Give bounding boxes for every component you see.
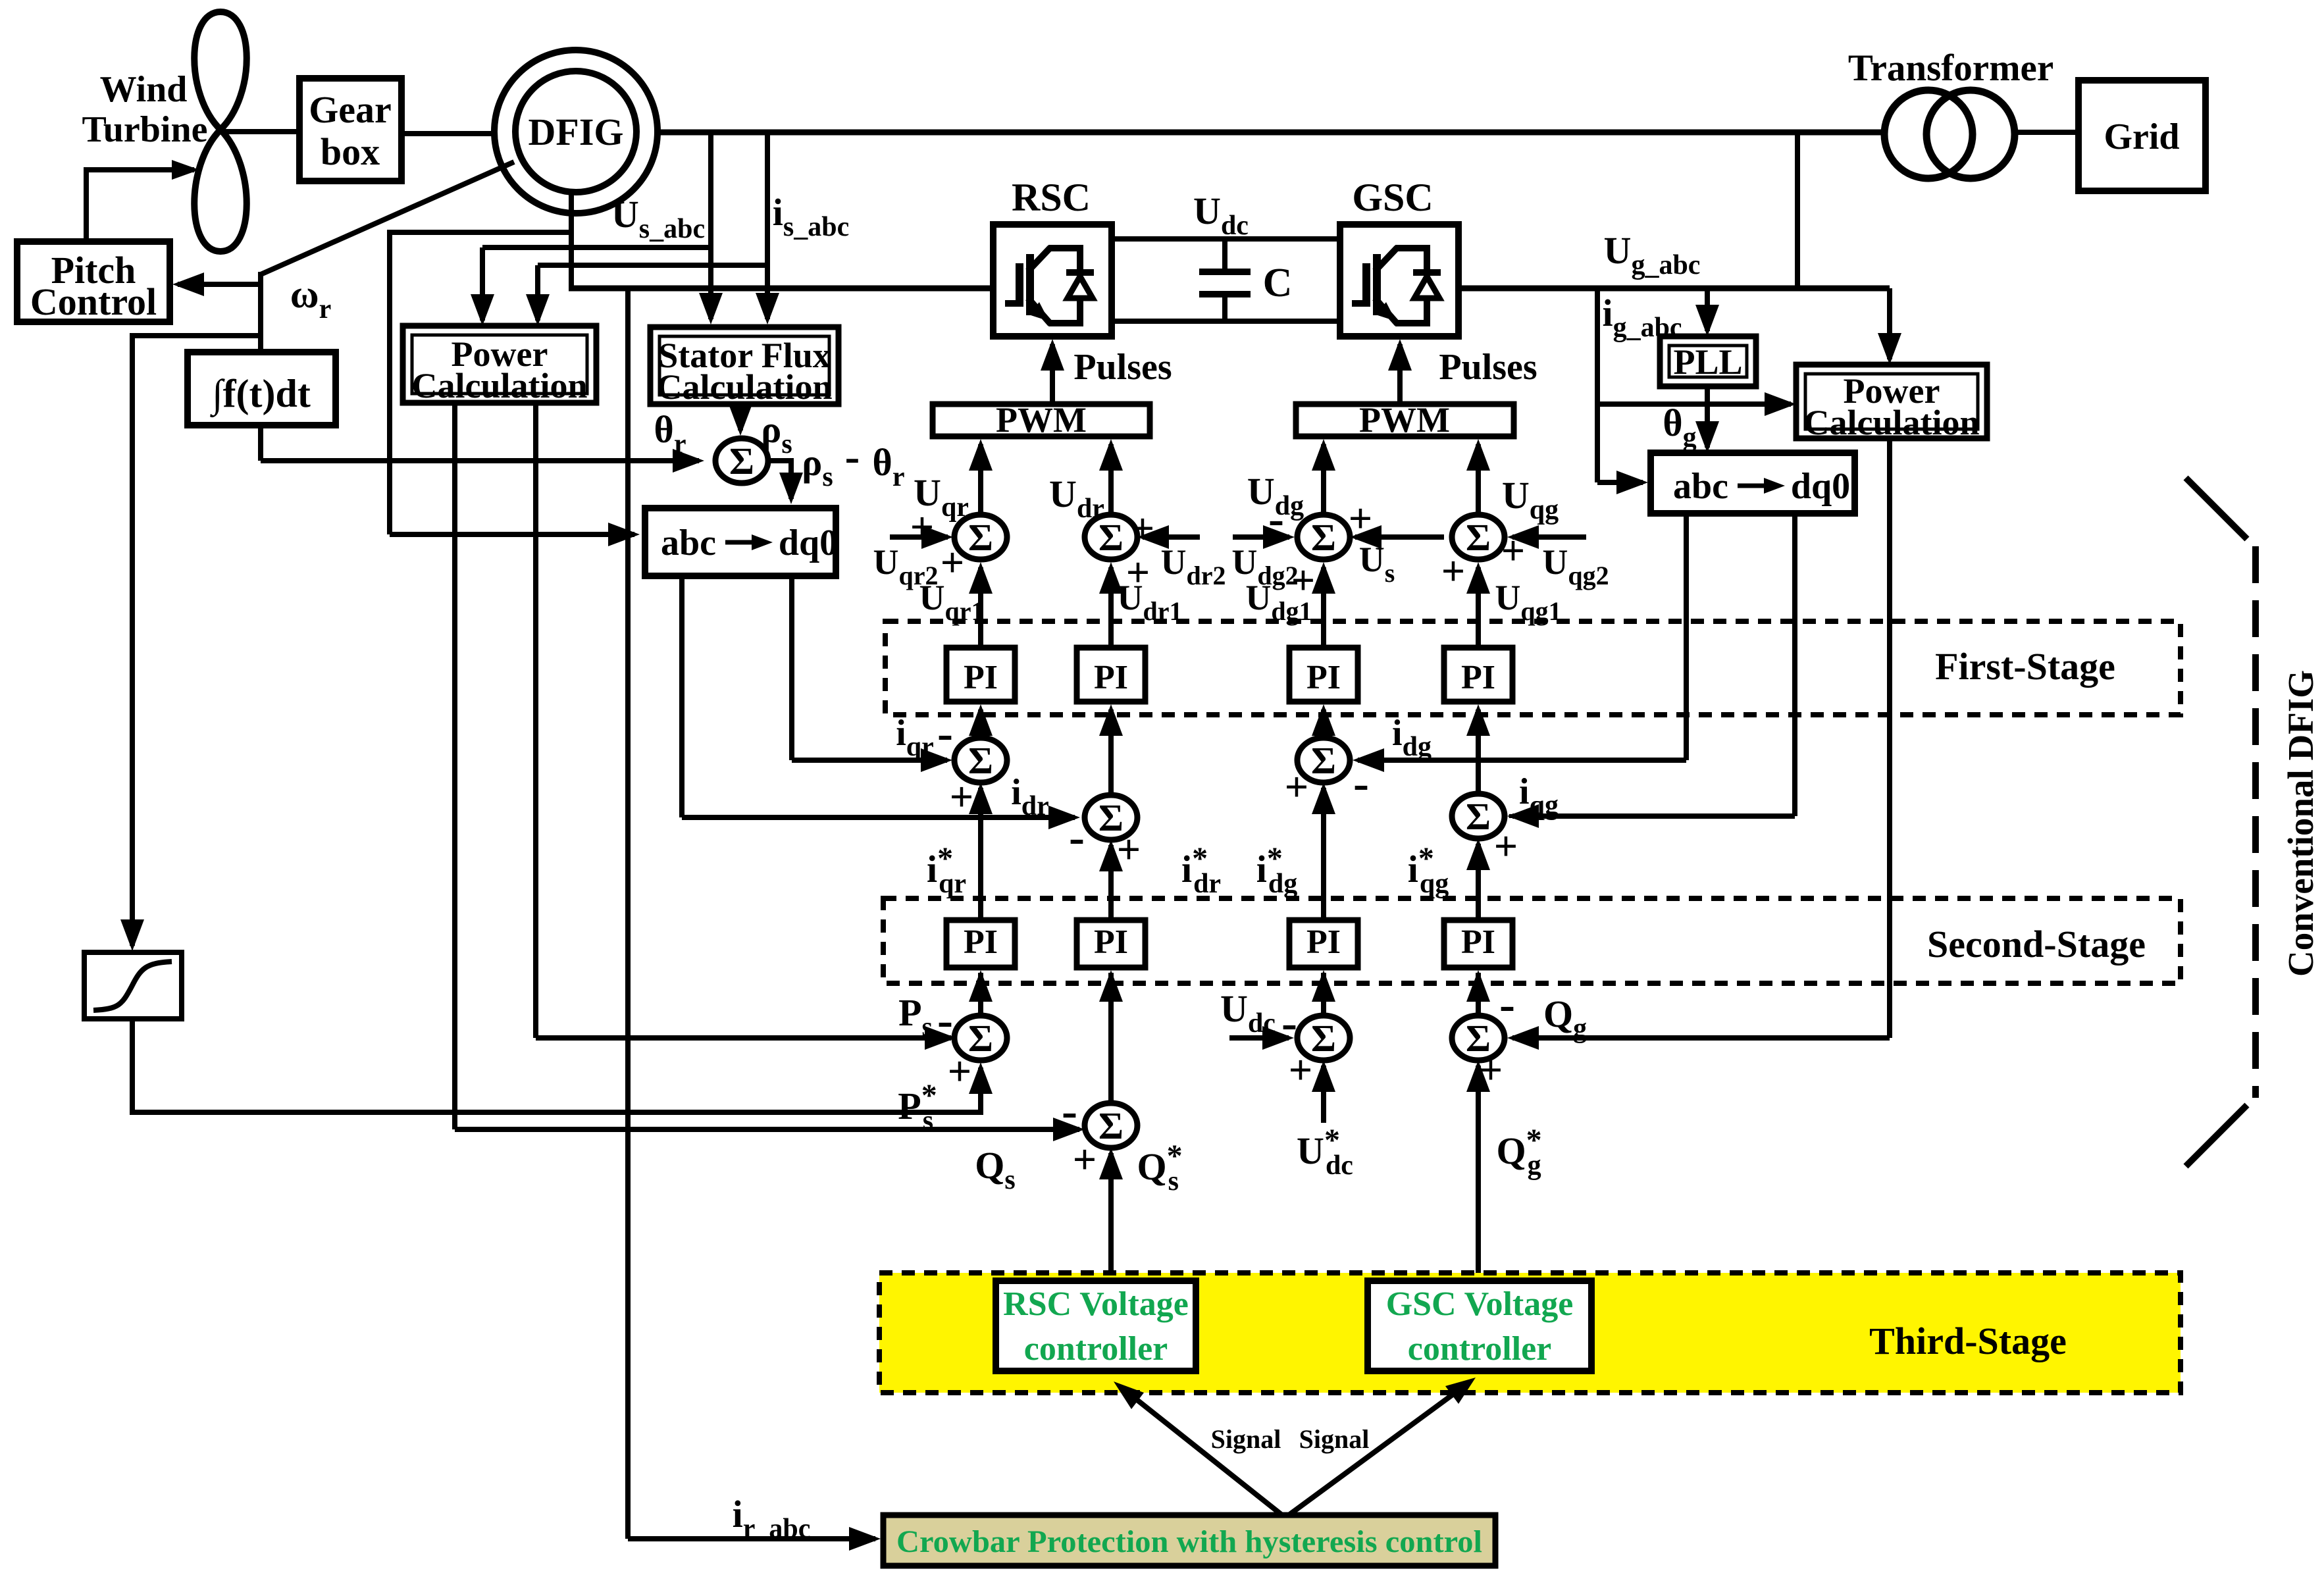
third stage yellow box [879,1273,2181,1393]
svg-text:Control: Control [30,280,157,323]
label plus i qg [1494,823,1518,869]
PI 2a box [1077,648,1145,702]
label plus i dr [1117,826,1141,873]
first stage dashed box [885,621,2181,715]
label U qr2 [873,542,939,590]
svg-text:+: + [1073,1136,1097,1183]
wire U qg1 from PI [1466,562,1490,648]
wire Q star g [1466,1060,1490,1281]
PI 1b box [946,920,1015,967]
PWM GSC box [1296,400,1514,440]
label plus U dr [1131,505,1154,552]
wire arrow PWM to GSC [1388,339,1412,404]
label P star s [898,1078,937,1136]
grid box [2079,80,2206,191]
label plus U dc [1289,1046,1312,1093]
label First-Stage [1935,645,2115,688]
svg-text:abc: abc [661,523,716,563]
wire rho minus theta to abc dq0 [768,461,803,504]
label Signal right [1299,1424,1370,1454]
sum junction i dr [1085,795,1137,840]
transformer [1884,90,2015,178]
svg-text:Σ: Σ [729,440,754,482]
sum junction rho minus theta [715,438,768,483]
svg-text:PI: PI [964,659,998,696]
label U dg [1247,470,1304,521]
wire Q g feedback [1507,438,1890,1050]
svg-text:First-Stage: First-Stage [1935,645,2115,688]
wire Q s input [455,403,1085,1141]
label U s abc [611,193,705,244]
svg-text:+: + [950,773,973,820]
pitch control box [17,242,170,323]
label Conventional DFIG [2281,670,2321,977]
label U qg [1502,474,1559,525]
PI 2b box [1077,920,1145,967]
wire transformer to grid [2015,130,2079,135]
label Wind Turbine [82,69,208,150]
wire U s abc tap [471,132,723,326]
svg-text:Crowbar Protection with hyster: Crowbar Protection with hysteresis contr… [896,1524,1482,1559]
label i star qg [1408,841,1449,899]
label minus i qg [1507,785,1523,838]
power calculation grid box [1796,365,1987,442]
svg-text:Σ: Σ [1466,795,1491,838]
wire U dg1 from PI [1312,562,1335,648]
svg-text:PLL: PLL [1673,342,1742,382]
abc to dq0 rotor box [645,508,838,576]
label Pulses RSC [1073,347,1172,388]
wire i dg feedback [1353,513,1686,772]
svg-text:+: + [1441,548,1465,594]
label i star qr [927,841,966,899]
svg-text:PI: PI [1094,659,1128,696]
wire i qg to PI [1466,704,1490,794]
wire i qg feedback [1507,513,1795,828]
label P s [898,991,933,1043]
wire arrow PWM to RSC [1041,339,1064,404]
label Q star g [1496,1123,1541,1181]
svg-text:Gear: Gear [309,88,392,131]
wire rotor current sense [390,230,640,546]
wire U dr1 from PI [1099,562,1123,648]
label U s [1359,540,1395,588]
svg-text:+: + [1131,505,1154,552]
PLL box [1660,336,1756,386]
label minus i qr [937,707,953,760]
svg-text:controller: controller [1408,1330,1552,1368]
label U qg1 [1495,578,1561,626]
label minus Q s [1062,1085,1077,1137]
PWM RSC box [933,400,1150,440]
sum junction i qr [954,738,1007,783]
stator flux calculation box [650,327,839,407]
wire Q g error to PI [1466,970,1490,1016]
label minus i dr [1069,811,1085,864]
label U qr1 [919,578,985,626]
svg-text:-: - [937,994,953,1046]
svg-text:PI: PI [964,923,998,961]
svg-text:-: - [1499,978,1515,1031]
label plus U qr1 [941,539,964,586]
saturation block [84,952,182,1019]
svg-text:-: - [845,431,860,481]
wire U dr2 input [1137,525,1200,549]
label plus U qg2 [1501,527,1525,574]
label minus U dc [1281,996,1297,1049]
label plus P s [948,1048,971,1095]
svg-text:DFIG: DFIG [529,111,624,153]
wire main AC bus DFIG to transformer [658,130,1885,136]
label GSC [1352,176,1433,219]
label U qg2 [1542,542,1609,590]
svg-text:Pulses: Pulses [1073,347,1172,388]
wire theta r to sum [261,425,704,473]
label i g abc [1602,292,1682,343]
label rho s [761,408,792,459]
wire DC link bottom [1112,319,1340,324]
wire P s error to PI [969,970,993,1016]
svg-text:Σ: Σ [1311,1017,1336,1060]
label plus U dr1 [1126,549,1150,596]
wire i dr to PI [1099,704,1123,795]
wire i star qr from PI [969,783,993,920]
svg-text:GSC: GSC [1352,176,1433,219]
GSC voltage controller box [1368,1281,1591,1371]
svg-text:PWM: PWM [1359,400,1450,440]
label U dc top [1193,190,1249,241]
label minus P s [937,994,953,1046]
label U star dc [1297,1123,1353,1181]
svg-text:+: + [1289,1046,1312,1093]
label Signal left [1211,1424,1281,1454]
sum junction P s [954,1016,1007,1060]
wire Q star s [1099,1148,1123,1281]
svg-text:GSC Voltage: GSC Voltage [1386,1285,1574,1323]
svg-text:Signal: Signal [1211,1424,1281,1454]
svg-text:Third-Stage: Third-Stage [1869,1320,2067,1362]
wire U dc error to PI [1312,970,1335,1016]
wire arrow U dr to PWM [1099,439,1123,515]
svg-text:+: + [1501,527,1525,574]
label i dr [1011,772,1049,821]
wire speed sensor from DFIG [261,162,514,352]
label RSC [1012,176,1091,219]
label U qr [914,471,969,523]
label minus Q g [1499,978,1515,1031]
svg-text:RSC: RSC [1012,176,1091,219]
wire i star dr from PI [1099,840,1123,920]
svg-text:Signal: Signal [1299,1424,1370,1454]
second stage dashed box [883,898,2181,983]
svg-text:Transformer: Transformer [1848,47,2053,89]
sum junction Q g [1452,1016,1505,1060]
svg-text:Pulses: Pulses [1439,347,1537,388]
power calculation stator box [403,326,596,405]
wire i star qg from PI [1466,838,1490,920]
label theta g [1663,401,1696,453]
label U dg1 [1245,578,1312,626]
converter GSC box [1340,224,1459,336]
RSC voltage controller box [996,1281,1196,1371]
crowbar protection box [883,1515,1495,1566]
svg-text:-: - [1281,996,1297,1049]
svg-text:+: + [1349,495,1372,542]
label i dg [1392,713,1432,762]
svg-text:abc: abc [1673,466,1728,507]
label U dg2 [1231,542,1298,590]
label U g abc [1604,229,1701,280]
label Second-Stage [1927,923,2146,966]
svg-text:Grid: Grid [2104,116,2179,157]
label plus Q g [1479,1046,1503,1093]
label plus U dg1 [1291,557,1315,604]
wire arrow to pitch control [172,272,261,296]
wire gear box to DFIG [401,131,496,136]
wire P s input [536,403,956,1050]
label plus U qr [910,503,934,550]
wire U dg2 input [1233,525,1295,549]
conventional DFIG bracket [2186,478,2256,1166]
svg-text:PI: PI [1306,659,1341,696]
label U dr [1049,473,1104,524]
sum junction Q s [1085,1103,1137,1148]
label i qg [1519,771,1559,821]
svg-text:Q*s: Q*s [1137,1139,1182,1197]
svg-text:Turbine: Turbine [82,109,208,150]
label omega r [290,272,332,324]
label minus U dg [1268,492,1284,545]
abc to dq0 grid box [1651,453,1855,513]
svg-text:-: - [1268,492,1284,545]
wire arrow into grid power calc [1878,288,1901,365]
sum junction i qg [1452,794,1505,838]
wire omega to saturation [120,333,261,951]
wire DC link top [1112,236,1340,242]
wire GSC to grid bus [1459,132,1890,288]
svg-text:Wind: Wind [100,69,188,110]
label Third-Stage [1869,1320,2067,1362]
svg-text:Σ: Σ [968,1017,993,1060]
wire rho s from stator flux [729,404,752,436]
label plus i dg [1285,763,1308,810]
svg-text:-: - [1069,811,1085,864]
capacitor C [1199,239,1251,321]
generator DFIG [494,50,658,213]
wire signal to GSC controller [1289,1378,1476,1515]
label i star dg [1256,841,1297,899]
label theta r [654,408,686,459]
label i qr [896,713,934,762]
svg-text:Second-Stage: Second-Stage [1927,923,2146,966]
svg-text:-: - [1062,1085,1077,1137]
svg-text:Σ: Σ [1466,516,1491,559]
PI 4b box [1444,920,1512,967]
wind turbine blades [194,12,247,251]
svg-text:Calculation: Calculation [656,367,832,407]
label Q s [975,1144,1015,1195]
svg-text:+: + [910,503,934,550]
wire U qr2 input [890,525,953,549]
wire turbine shaft to gear box [220,129,299,134]
wire rotor connection to RSC [569,192,993,288]
svg-text:C: C [1263,261,1293,305]
wire arrow U dg to PWM [1312,439,1335,515]
label i star dr [1181,841,1221,899]
wire arrow pitch control to turbine [86,160,199,242]
label Pulses GSC [1439,347,1537,388]
wire i dr output [682,576,1080,829]
wire theta g [1695,386,1719,453]
label C [1263,261,1293,305]
wire i qr output [792,576,952,772]
svg-text:+: + [1285,763,1308,810]
label plus i qr [950,773,973,820]
label U dr2 [1161,542,1226,590]
label Transformer [1848,47,2053,89]
wire U dc input [1229,1026,1294,1050]
svg-text:Σ: Σ [968,516,993,559]
wire i qr to PI [969,704,993,738]
svg-text:PI: PI [1461,659,1495,696]
wire P star s reference [132,1019,993,1112]
wire i g abc branch [1597,288,1796,494]
svg-text:PI: PI [1461,923,1495,961]
integrator box [188,352,336,425]
svg-text:+: + [1117,826,1141,873]
converter RSC box [993,224,1112,336]
PI 4a box [1444,648,1512,702]
wire Q s error to PI [1099,970,1123,1103]
gear box [299,78,401,181]
sum junction U qg [1452,515,1505,559]
PI 1a box [946,648,1015,702]
svg-text:PI: PI [1306,923,1341,961]
label rho s minus theta r [802,431,904,492]
svg-text:dq0: dq0 [779,523,838,563]
wire arrow into PLL [1695,288,1719,336]
label minus i dg [1353,757,1369,810]
svg-text:Σ: Σ [1311,516,1336,559]
label Q star s [1137,1139,1182,1197]
PI 3a box [1289,648,1358,702]
wire U qg2 input [1507,525,1586,549]
label U dc [1220,987,1276,1039]
wire arrow U qr to PWM [969,439,993,515]
svg-text:Conventional DFIG: Conventional DFIG [2281,670,2321,977]
wire i dg to PI [1312,704,1335,738]
wire signal to RSC controller [1114,1381,1282,1515]
svg-text:-: - [937,707,953,760]
svg-text:RSC Voltage: RSC Voltage [1003,1285,1189,1323]
svg-text:-: - [1353,757,1369,810]
wire U star dc [1312,1060,1335,1123]
svg-text:dq0: dq0 [1791,466,1850,507]
svg-text:+: + [948,1048,971,1095]
svg-text:box: box [321,130,380,173]
label i s abc [773,191,849,242]
wire arrow U qg to PWM [1466,439,1490,515]
wire U qr1 from PI [969,562,993,648]
svg-text:controller: controller [1024,1330,1168,1368]
svg-text:Q*g: Q*g [1496,1123,1541,1181]
label plus Q s [1073,1136,1097,1183]
label Q g [1543,993,1587,1044]
label U dr1 [1118,578,1183,626]
label plus U qg1 left [1441,548,1465,594]
wire U s input [1350,525,1444,549]
sum junction U dg [1297,515,1350,559]
sum junction U dc [1297,1016,1350,1060]
wire i s abc tap [526,132,779,326]
sum junction U qr [954,515,1007,559]
wire i r abc to crowbar [628,288,881,1551]
svg-text:PWM: PWM [996,400,1087,440]
svg-text:∫f(t)dt: ∫f(t)dt [210,372,311,418]
wire i star dg from PI [1312,783,1335,920]
svg-text:PI: PI [1094,923,1128,961]
svg-text:Calculation: Calculation [411,366,587,405]
label plus U s [1349,495,1372,542]
sum junction i dg [1297,738,1350,783]
label i r abc [733,1493,811,1544]
svg-text:Σ: Σ [1311,739,1336,782]
svg-text:Σ: Σ [1098,1104,1123,1147]
svg-text:+: + [1494,823,1518,869]
svg-text:Calculation: Calculation [1803,403,1979,442]
sum junction U dr [1085,515,1137,559]
PI 3b box [1289,920,1358,967]
